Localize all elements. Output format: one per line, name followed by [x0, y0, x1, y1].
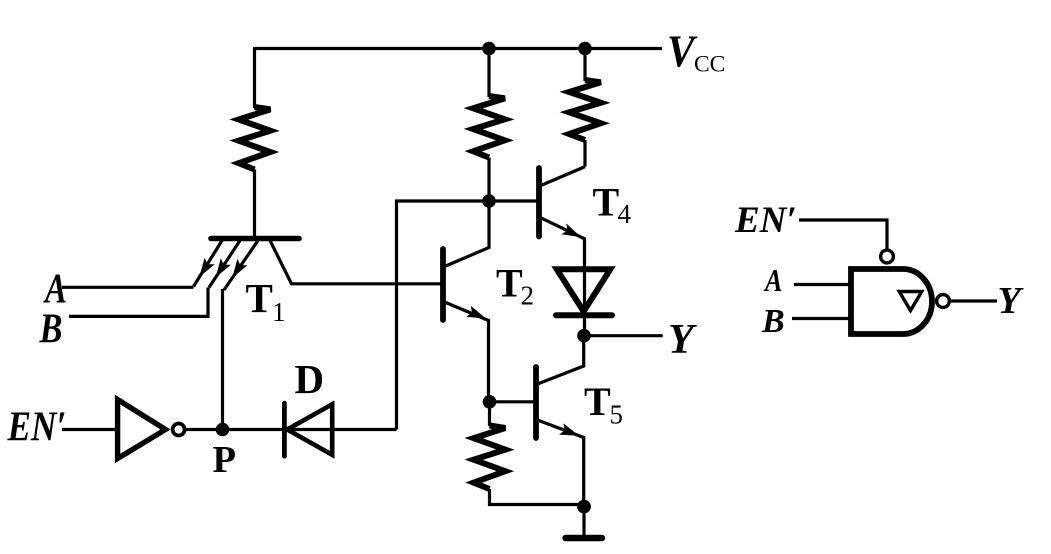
wire Vcc rail — [255, 47, 663, 50]
svg-text:P: P — [213, 439, 237, 481]
wire A to gate — [794, 283, 849, 286]
diode D — [284, 403, 332, 456]
wire R3 to ground rail — [490, 489, 585, 505]
svg-text:B: B — [761, 303, 785, 340]
node Vcc-R2 junction — [482, 42, 496, 56]
inverter U1 — [118, 400, 185, 459]
transistor T2 — [443, 201, 489, 321]
svg-text:T: T — [584, 379, 611, 424]
node node2 (T2 emitter / T5 base / R3) — [483, 395, 497, 409]
wire inverter to node P and diode D — [186, 428, 397, 431]
node Y — [577, 329, 591, 343]
diode D2 (output level-shift diode) — [556, 269, 612, 315]
transistor T5 — [536, 336, 584, 507]
wire T1 collector to T2 base — [291, 282, 442, 285]
wire Vcc to R1 — [253, 47, 256, 108]
svg-text:T: T — [593, 180, 620, 225]
resistor R1 — [239, 107, 271, 170]
gate U2 tri-state marker triangle — [899, 292, 922, 311]
gate U2 output bubble — [937, 295, 950, 308]
ground — [582, 507, 585, 535]
svg-text:D: D — [295, 356, 325, 402]
svg-text:Y: Y — [998, 280, 1025, 322]
svg-text:EN′: EN′ — [7, 404, 67, 451]
svg-text:T: T — [496, 261, 523, 306]
wire EN' to gate enable bubble — [799, 220, 887, 250]
wire T1 emitter3 to node P — [221, 289, 224, 430]
resistor R4 — [569, 80, 601, 140]
wire B to gate — [792, 317, 849, 320]
svg-text:4: 4 — [618, 199, 632, 229]
wire EN to inverter — [62, 428, 117, 431]
node ground junction — [577, 500, 591, 514]
node Vcc-R4 junction — [578, 42, 592, 56]
wire T2 emitter to node2 — [487, 319, 490, 402]
svg-text:5: 5 — [610, 400, 624, 430]
svg-text:1: 1 — [272, 297, 286, 327]
svg-text:2: 2 — [521, 281, 535, 311]
svg-text:Y: Y — [668, 317, 697, 363]
svg-text:B: B — [39, 306, 63, 352]
wire R2 to node1 — [487, 158, 490, 202]
svg-text:EN′: EN′ — [734, 200, 797, 241]
gate U2 enable bubble — [881, 250, 894, 263]
wire R4 to T4 collector — [583, 140, 586, 167]
wire Y output — [584, 334, 663, 337]
wire node2 to R3 — [488, 402, 491, 426]
wire gate output to Y — [950, 299, 997, 302]
resistor R3 — [474, 426, 506, 490]
wire node1 to T4 base — [489, 199, 537, 202]
wire R1 to T1 base — [253, 170, 256, 239]
wire input A — [62, 286, 194, 289]
svg-text:A: A — [763, 264, 782, 299]
node node1 (T2 collector / T4 base) — [482, 194, 496, 208]
wire diode D to node1 — [397, 201, 490, 430]
transistor T4 — [539, 167, 585, 336]
wire Vcc to R4 — [583, 49, 586, 82]
gate U2 (tri-state NAND) body — [851, 269, 932, 334]
wire input B — [69, 288, 208, 317]
svg-text:T: T — [246, 275, 273, 321]
node P — [216, 423, 230, 437]
transistor T1 (multi-emitter input) — [194, 239, 300, 291]
wire node2 to T5 base — [490, 400, 535, 403]
wire Vcc to R2 — [487, 49, 490, 98]
svg-text:CC: CC — [694, 52, 725, 78]
resistor R2 — [473, 96, 505, 158]
